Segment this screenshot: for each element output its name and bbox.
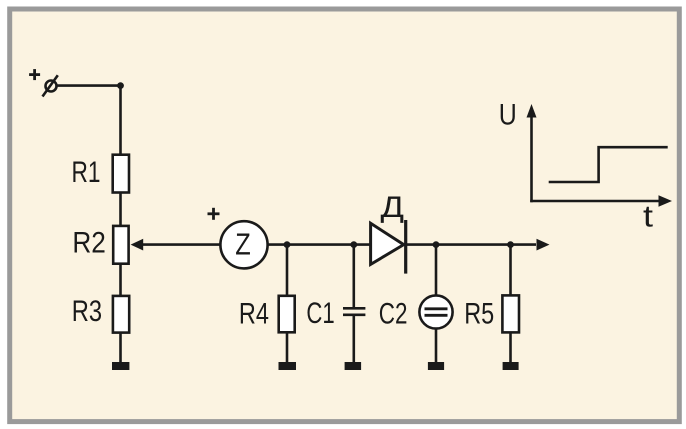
main wire Z to output bbox=[268, 243, 537, 246]
svg-text:C2: C2 bbox=[379, 298, 408, 331]
resistor R5 bbox=[464, 295, 519, 332]
wire down to R1 bbox=[119, 86, 122, 155]
wire R5 to ground bbox=[509, 332, 512, 363]
graph U axis bbox=[527, 104, 537, 202]
wire down to R5 bbox=[509, 245, 512, 296]
junction C2 node bbox=[433, 241, 440, 248]
svg-text:R2: R2 bbox=[72, 227, 106, 260]
wiper arrow into R2 bbox=[131, 239, 144, 251]
junction top node bbox=[117, 82, 124, 89]
wire arrow to Z bbox=[142, 243, 220, 246]
wire down to C1 bbox=[352, 245, 355, 308]
resistor R3 bbox=[72, 295, 129, 333]
svg-text:Д: Д bbox=[381, 191, 405, 224]
resistor R1 bbox=[72, 155, 130, 193]
polarity + label at Z bbox=[208, 208, 220, 220]
svg-text:Z: Z bbox=[235, 227, 251, 262]
svg-text:t: t bbox=[643, 200, 654, 234]
resistor R4 bbox=[239, 296, 295, 333]
wire R1 to R2 bbox=[119, 193, 122, 227]
wire from terminal to top node bbox=[57, 84, 120, 87]
wire C2 to ground bbox=[435, 329, 438, 363]
ground bbox=[503, 362, 519, 370]
step waveform bbox=[549, 147, 668, 182]
resistor R2 bbox=[72, 226, 128, 264]
polarity + label at input bbox=[29, 69, 40, 80]
output arrow bbox=[537, 239, 550, 251]
svg-text:U: U bbox=[499, 99, 517, 132]
wire down to C2 bbox=[435, 245, 438, 296]
graph t axis bbox=[530, 195, 672, 207]
junction R4 node bbox=[284, 241, 291, 248]
ground bbox=[112, 362, 129, 370]
junction C1 node bbox=[350, 241, 357, 248]
source Z bbox=[220, 221, 267, 268]
wire R3 to ground bbox=[119, 333, 122, 363]
diode D bbox=[371, 220, 406, 274]
wire R2 to R3 bbox=[119, 264, 122, 296]
input terminal bbox=[43, 75, 58, 96]
svg-text:R1: R1 bbox=[72, 156, 101, 189]
junction R5 node bbox=[507, 241, 514, 248]
ground bbox=[279, 362, 297, 370]
svg-text:R4: R4 bbox=[239, 298, 269, 331]
ground bbox=[428, 362, 444, 370]
ground bbox=[345, 362, 362, 370]
capacitor C2 (polarized) bbox=[379, 295, 453, 330]
capacitor C1 bbox=[306, 297, 365, 330]
svg-text:C1: C1 bbox=[306, 297, 334, 330]
wire C1 to ground bbox=[352, 316, 355, 363]
wire R4 to ground bbox=[286, 332, 289, 363]
wire down to R4 bbox=[286, 245, 289, 296]
svg-text:R3: R3 bbox=[72, 295, 102, 328]
svg-text:R5: R5 bbox=[464, 298, 494, 331]
